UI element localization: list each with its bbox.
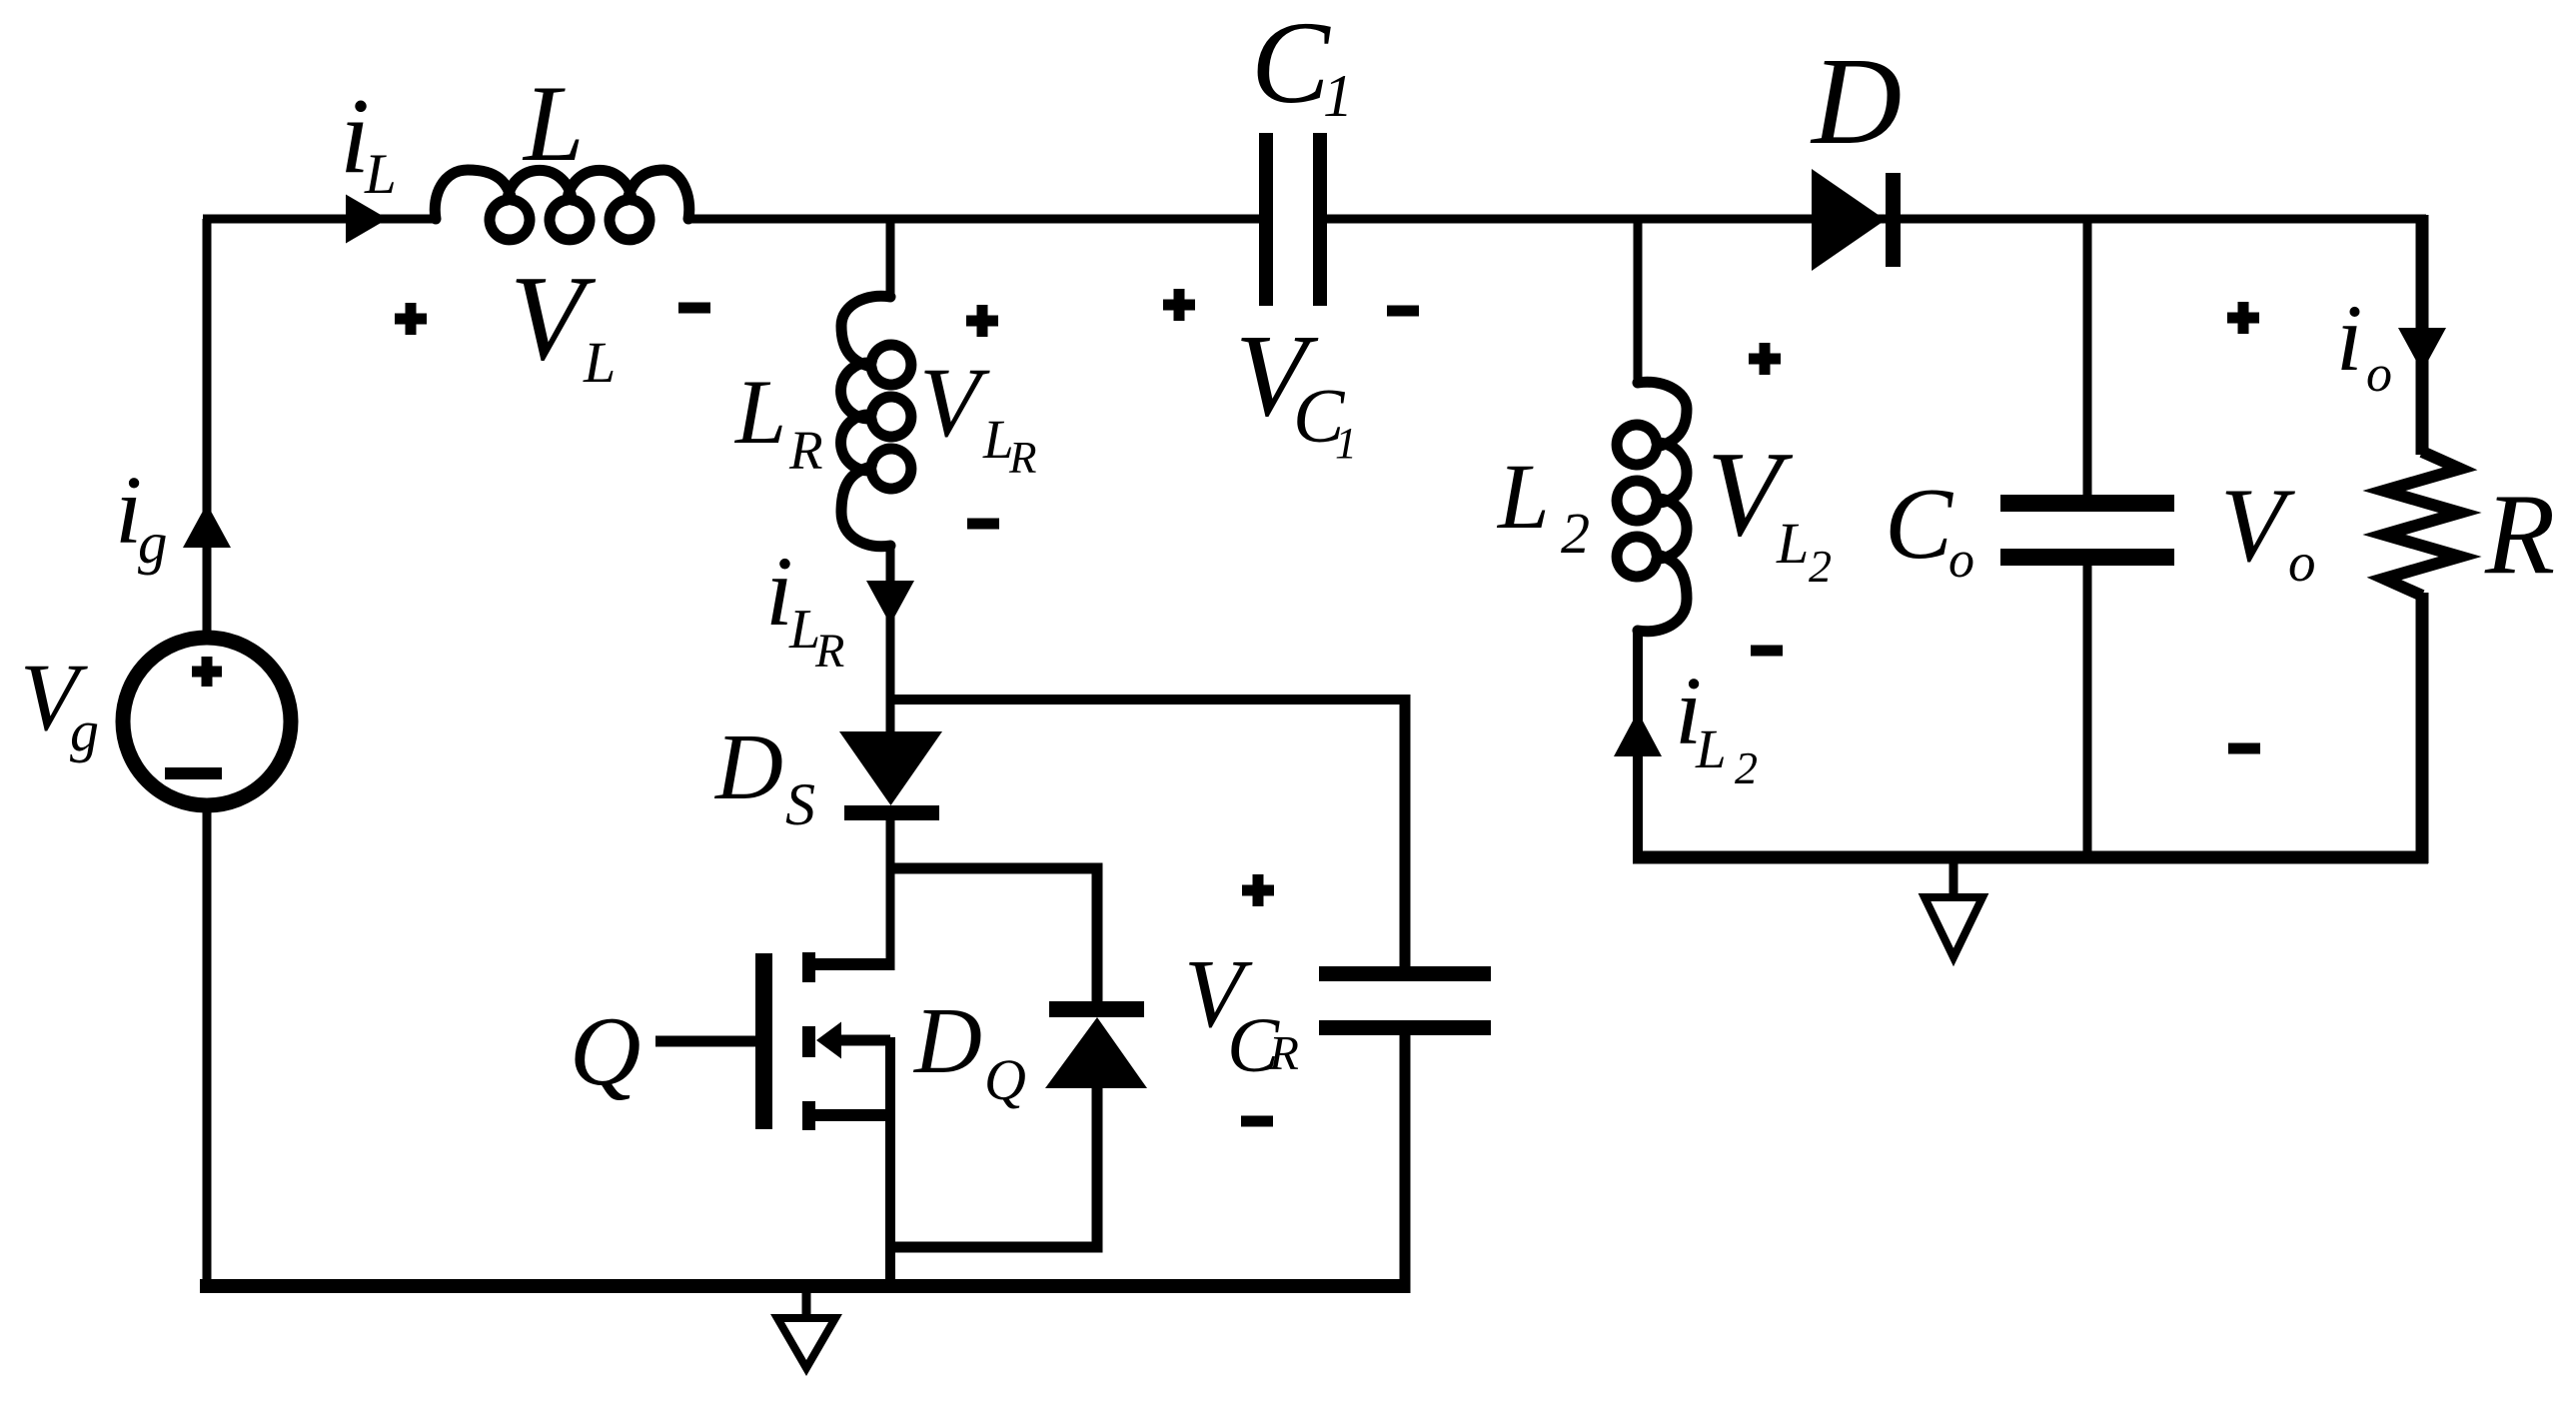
svg-text:2: 2 [1735,742,1758,793]
svg-text:Q: Q [984,1047,1026,1112]
svg-text:D: D [1810,33,1902,171]
svg-text:R: R [1008,433,1037,483]
svg-text:L: L [733,361,786,463]
svg-text:C: C [1251,0,1331,128]
svg-text:R: R [814,625,844,678]
svg-text:1: 1 [1335,419,1357,468]
svg-text:R: R [788,420,823,481]
svg-text:D: D [713,715,783,819]
svg-text:L: L [1695,718,1727,779]
svg-text:o: o [2366,346,2392,403]
svg-text:2: 2 [1561,501,1590,566]
svg-text:V: V [2220,467,2295,584]
svg-text:S: S [785,771,815,837]
svg-text:1: 1 [1323,63,1353,129]
svg-text:2: 2 [1809,541,1832,592]
svg-text:L: L [1776,511,1809,576]
svg-text:g: g [138,510,168,576]
svg-text:g: g [70,699,99,763]
svg-text:D: D [912,989,982,1093]
svg-text:C: C [1885,468,1953,581]
svg-text:i: i [2336,285,2362,391]
svg-text:L: L [1496,446,1550,549]
svg-text:R: R [2484,471,2555,598]
svg-text:L: L [583,330,616,395]
svg-text:o: o [1948,532,1974,589]
svg-text:o: o [2288,532,2316,593]
svg-text:R: R [1268,1025,1299,1080]
svg-text:V: V [919,347,990,458]
svg-text:L: L [522,63,585,184]
svg-text:Q: Q [570,997,642,1106]
svg-text:L: L [364,143,397,206]
